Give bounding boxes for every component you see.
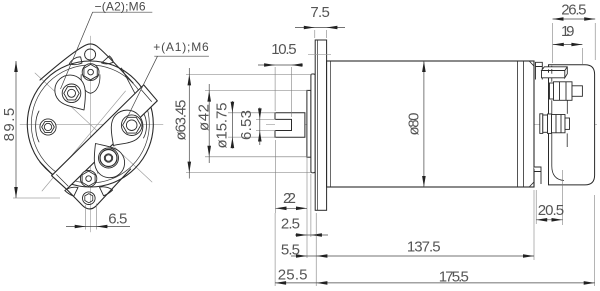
small bottom stud <box>534 167 542 184</box>
housing outer circle <box>27 61 153 187</box>
dim 10.5 <box>274 67 276 111</box>
leader A2 <box>61 12 153 89</box>
svg-text:6.5: 6.5 <box>108 211 127 228</box>
cylinder seam ring left <box>517 61 519 187</box>
svg-text:10.5: 10.5 <box>271 41 296 58</box>
dim dia80 <box>423 61 425 187</box>
boss dia63.45 <box>311 74 315 173</box>
bolt B6 bottom (hex) <box>80 170 96 186</box>
dim 6.53 <box>256 118 276 120</box>
svg-text:25.5: 25.5 <box>278 267 308 284</box>
dim 5.5 and 137.5 shared line <box>315 213 317 260</box>
svg-text:175.5: 175.5 <box>439 269 469 286</box>
svg-text:137.5: 137.5 <box>407 238 441 255</box>
upper terminal washer <box>550 83 554 99</box>
svg-text:ø42: ø42 <box>195 104 212 131</box>
svg-text:2.5: 2.5 <box>281 216 300 233</box>
dim 25.5 and 175.5 shared line <box>274 213 276 286</box>
cover front face line <box>552 66 564 181</box>
bottom tab right wedge window <box>100 187 113 196</box>
motor cylinder body <box>327 61 534 187</box>
claw arc left of left bolt <box>36 111 39 142</box>
dim 2.5 <box>310 174 312 237</box>
pole lobe around bolt B3 <box>111 110 143 145</box>
shaft fork outer <box>275 113 305 138</box>
terminal cover rounded <box>549 65 595 185</box>
svg-text:19: 19 <box>561 23 575 40</box>
dim 19 <box>581 48 583 64</box>
top tab right wedge window <box>102 56 114 64</box>
housing inner circle <box>31 65 149 183</box>
pole lobe around bolt B1 <box>55 75 86 110</box>
svg-text:ø63.45: ø63.45 <box>173 100 190 141</box>
top mounting tab <box>40 44 133 83</box>
svg-text:ø80: ø80 <box>406 113 423 136</box>
dim dia42 <box>205 90 308 92</box>
mounting flange plate <box>315 40 326 210</box>
svg-text:ø15.75: ø15.75 <box>214 103 231 149</box>
bolt B3 right (washer+hex) <box>121 115 142 136</box>
dim 7.5 <box>314 30 316 38</box>
upper terminal stud tip <box>572 86 582 97</box>
centerline diagonal 1 <box>35 73 152 182</box>
claw edge line upper right <box>122 68 141 103</box>
dim dia63.45 <box>186 73 313 75</box>
end chamfer top <box>530 61 534 65</box>
diagonal band strap <box>52 85 158 189</box>
band inner line lower end <box>57 175 69 187</box>
centerline vertical front view <box>89 36 91 232</box>
svg-text:26.5: 26.5 <box>561 1 586 18</box>
bottom tab hole <box>83 192 96 205</box>
svg-text:5.5: 5.5 <box>281 242 300 259</box>
small top stud <box>536 62 543 79</box>
svg-text:20.5: 20.5 <box>538 202 564 219</box>
shaft fork slot <box>275 119 292 130</box>
bolt B5 top (hex) <box>82 64 99 81</box>
svg-text:22: 22 <box>283 190 296 207</box>
svg-text:+(A1);M6: +(A1);M6 <box>153 40 209 54</box>
dim dia15.75 <box>228 112 276 114</box>
dim 89.5 line <box>15 61 17 198</box>
upper terminal hex nut <box>554 82 573 101</box>
terminal block edge line <box>566 100 568 114</box>
bolt B4 lower-right (washer rings) <box>99 148 119 168</box>
upper terminal strap <box>542 67 568 78</box>
flange tab hole centerline top <box>308 53 331 55</box>
end chamfer bottom <box>530 182 534 186</box>
claw arc right bolt <box>144 113 147 138</box>
svg-text:6.53: 6.53 <box>238 110 255 140</box>
bottom tab left wedge window <box>65 187 78 196</box>
lower terminal stack <box>540 114 570 134</box>
centerline horizontal front view <box>20 124 163 126</box>
dim 6.5 bottom front view <box>85 205 87 230</box>
top tab hole <box>85 49 96 60</box>
band inner line upper end <box>142 90 152 102</box>
pole boundary near top hex <box>81 75 100 94</box>
bottom mounting tab <box>40 162 131 209</box>
centerline diagonal 2 <box>42 91 126 191</box>
cover terminal boss edge <box>566 133 568 147</box>
cylinder seam ring right <box>523 61 525 187</box>
svg-text:7.5: 7.5 <box>310 4 329 21</box>
svg-text:89.5: 89.5 <box>1 108 18 142</box>
svg-text:−(A2);M6: −(A2);M6 <box>95 0 146 14</box>
pole lobe around bolt B4 <box>94 144 124 178</box>
dim 22 <box>275 140 277 213</box>
boss dia42 <box>307 90 311 157</box>
dim 20.5 <box>535 190 537 224</box>
leader A1 <box>127 56 209 119</box>
bolt B1 upper-left (washer+hex) <box>62 84 81 103</box>
top tab left wedge window <box>69 57 82 65</box>
bolt B2 left (hex) <box>40 119 56 135</box>
pole boundary near bottom hex <box>98 163 116 174</box>
centerline horizontal side view <box>266 124 597 126</box>
text dia80 rotated <box>405 111 420 138</box>
cylinder seam near flange <box>330 61 332 187</box>
dim 26.5 <box>552 23 554 63</box>
